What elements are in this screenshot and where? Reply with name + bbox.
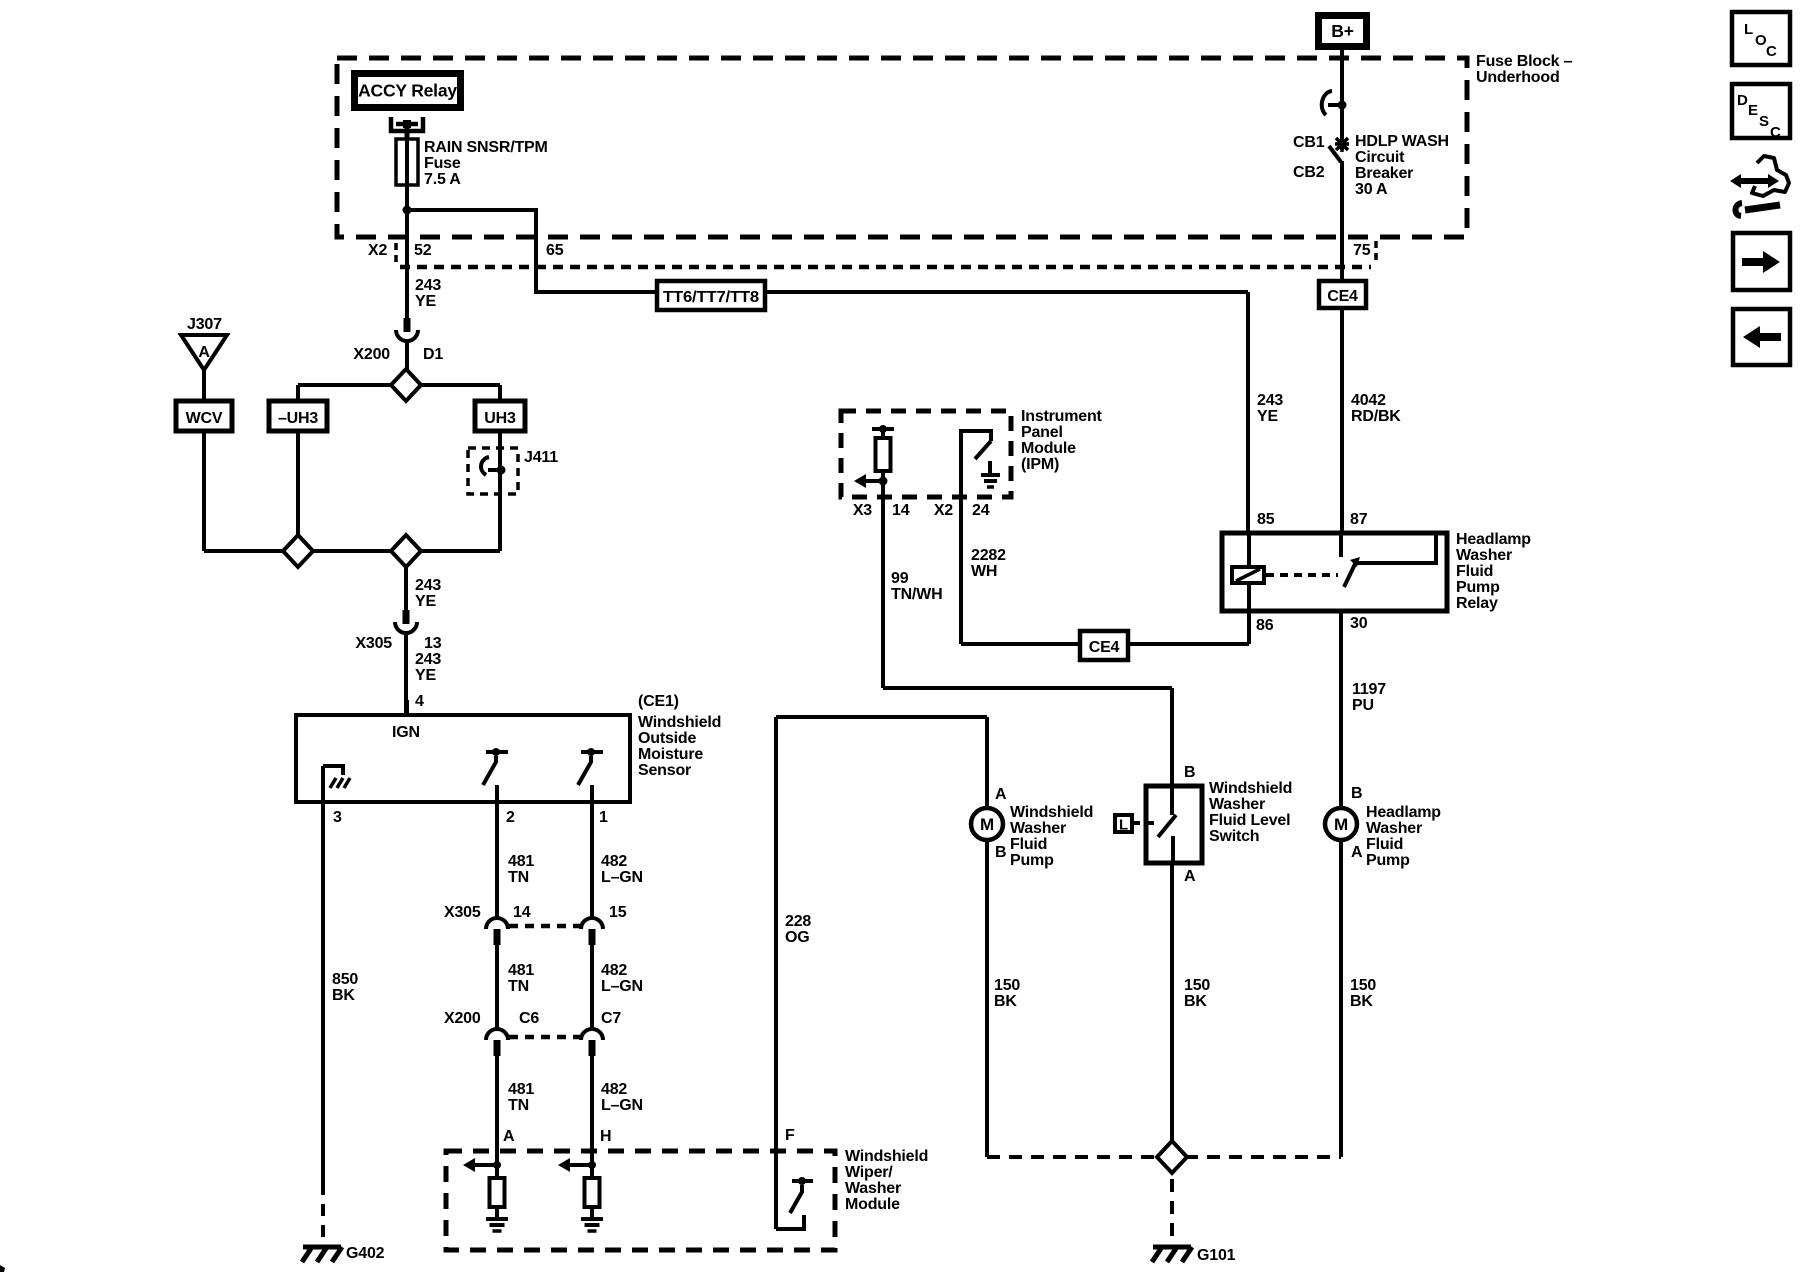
svg-text:OG: OG bbox=[785, 929, 810, 946]
svg-text:BK: BK bbox=[994, 993, 1017, 1010]
svg-text:–UH3: –UH3 bbox=[278, 410, 318, 427]
svg-text:850: 850 bbox=[332, 971, 358, 988]
svg-text:15: 15 bbox=[609, 904, 627, 921]
svg-text:4: 4 bbox=[415, 693, 424, 710]
svg-text:G402: G402 bbox=[346, 1245, 385, 1262]
svg-text:4042: 4042 bbox=[1351, 392, 1386, 409]
svg-text:TN/WH: TN/WH bbox=[891, 586, 942, 603]
svg-text:A: A bbox=[198, 344, 210, 361]
svg-text:1197: 1197 bbox=[1352, 681, 1386, 698]
svg-text:RD/BK: RD/BK bbox=[1351, 408, 1401, 425]
svg-text:2: 2 bbox=[506, 809, 515, 826]
svg-text:482: 482 bbox=[601, 962, 627, 979]
svg-text:C6: C6 bbox=[519, 1010, 539, 1027]
svg-text:Relay: Relay bbox=[1456, 595, 1498, 612]
svg-text:99: 99 bbox=[891, 570, 909, 587]
svg-text:Windshield: Windshield bbox=[638, 714, 721, 731]
svg-text:Fluid Level: Fluid Level bbox=[1209, 812, 1290, 829]
svg-text:RAIN SNSR/TPM: RAIN SNSR/TPM bbox=[424, 139, 548, 156]
svg-text:Sensor: Sensor bbox=[638, 762, 691, 779]
svg-text:Washer: Washer bbox=[1456, 547, 1512, 564]
svg-text:Washer: Washer bbox=[845, 1180, 901, 1197]
svg-text:Moisture: Moisture bbox=[638, 746, 703, 763]
svg-text:Headlamp: Headlamp bbox=[1366, 804, 1441, 821]
svg-text:J411: J411 bbox=[524, 449, 558, 466]
svg-text:YE: YE bbox=[415, 667, 436, 684]
svg-text:H: H bbox=[600, 1128, 611, 1145]
svg-text:BK: BK bbox=[1184, 993, 1207, 1010]
svg-text:X305: X305 bbox=[444, 904, 481, 921]
svg-text:TN: TN bbox=[508, 869, 529, 886]
svg-text:Washer: Washer bbox=[1209, 796, 1265, 813]
svg-text:C: C bbox=[1770, 124, 1781, 141]
svg-text:Module: Module bbox=[1021, 440, 1076, 457]
svg-text:Underhood: Underhood bbox=[1476, 69, 1560, 86]
svg-text:L–GN: L–GN bbox=[601, 869, 643, 886]
svg-text:30 A: 30 A bbox=[1355, 181, 1388, 198]
svg-text:Windshield: Windshield bbox=[1010, 804, 1093, 821]
svg-text:Windshield: Windshield bbox=[1209, 780, 1292, 797]
svg-text:D1: D1 bbox=[423, 346, 443, 363]
svg-text:HDLP WASH: HDLP WASH bbox=[1355, 133, 1449, 150]
svg-text:L: L bbox=[1119, 817, 1128, 834]
svg-text:Breaker: Breaker bbox=[1355, 165, 1413, 182]
svg-text:E: E bbox=[1748, 102, 1758, 119]
svg-text:L: L bbox=[1744, 21, 1753, 38]
svg-text:G101: G101 bbox=[1197, 1247, 1236, 1264]
svg-text:BK: BK bbox=[1350, 993, 1373, 1010]
svg-text:L–GN: L–GN bbox=[601, 1097, 643, 1114]
svg-text:150: 150 bbox=[994, 977, 1020, 994]
svg-text:BK: BK bbox=[332, 987, 355, 1004]
svg-text:TN: TN bbox=[508, 1097, 529, 1114]
svg-text:C7: C7 bbox=[601, 1010, 621, 1027]
svg-text:D: D bbox=[1737, 92, 1748, 109]
svg-text:Washer: Washer bbox=[1366, 820, 1422, 837]
svg-text:228: 228 bbox=[785, 913, 811, 930]
svg-text:X2: X2 bbox=[368, 242, 387, 259]
svg-text:X200: X200 bbox=[444, 1010, 481, 1027]
svg-text:13: 13 bbox=[424, 635, 442, 652]
svg-text:Washer: Washer bbox=[1010, 820, 1066, 837]
svg-text:ACCY Relay: ACCY Relay bbox=[358, 81, 457, 101]
svg-text:1: 1 bbox=[599, 809, 608, 826]
svg-text:A: A bbox=[503, 1128, 515, 1145]
svg-text:Fluid: Fluid bbox=[1010, 836, 1047, 853]
svg-text:C: C bbox=[1766, 43, 1777, 60]
svg-text:WH: WH bbox=[971, 563, 997, 580]
svg-text:7.5 A: 7.5 A bbox=[424, 171, 461, 188]
svg-text:CB2: CB2 bbox=[1293, 164, 1325, 181]
svg-text:(CE1): (CE1) bbox=[638, 693, 679, 710]
svg-text:YE: YE bbox=[415, 593, 436, 610]
svg-text:Pump: Pump bbox=[1010, 852, 1054, 869]
svg-text:87: 87 bbox=[1350, 511, 1368, 528]
svg-text:A: A bbox=[1351, 844, 1363, 861]
svg-text:F: F bbox=[785, 1127, 795, 1144]
svg-text:CB1: CB1 bbox=[1293, 134, 1325, 151]
svg-text:Panel: Panel bbox=[1021, 424, 1063, 441]
svg-text:X2: X2 bbox=[934, 502, 953, 519]
svg-text:30: 30 bbox=[1350, 615, 1368, 632]
svg-text:150: 150 bbox=[1350, 977, 1376, 994]
svg-text:52: 52 bbox=[414, 242, 432, 259]
svg-text:Pump: Pump bbox=[1456, 579, 1500, 596]
svg-text:481: 481 bbox=[508, 853, 534, 870]
svg-text:243: 243 bbox=[415, 651, 441, 668]
svg-text:65: 65 bbox=[546, 242, 564, 259]
svg-text:Wiper/: Wiper/ bbox=[845, 1164, 893, 1181]
svg-text:14: 14 bbox=[513, 904, 531, 921]
svg-text:Module: Module bbox=[845, 1196, 900, 1213]
svg-text:Fluid: Fluid bbox=[1456, 563, 1493, 580]
svg-text:TN: TN bbox=[508, 978, 529, 995]
svg-text:YE: YE bbox=[415, 293, 436, 310]
svg-text:482: 482 bbox=[601, 1081, 627, 1098]
svg-text:86: 86 bbox=[1256, 617, 1274, 634]
svg-text:2282: 2282 bbox=[971, 547, 1006, 564]
svg-text:L–GN: L–GN bbox=[601, 978, 643, 995]
svg-text:TT6/TT7/TT8: TT6/TT7/TT8 bbox=[663, 289, 759, 306]
svg-text:Circuit: Circuit bbox=[1355, 149, 1405, 166]
svg-text:B+: B+ bbox=[1331, 21, 1353, 41]
svg-text:UH3: UH3 bbox=[484, 410, 516, 427]
svg-text:Pump: Pump bbox=[1366, 852, 1410, 869]
svg-text:481: 481 bbox=[508, 962, 534, 979]
svg-text:B: B bbox=[995, 844, 1006, 861]
svg-text:B: B bbox=[1351, 785, 1362, 802]
svg-text:243: 243 bbox=[1257, 392, 1283, 409]
svg-text:A: A bbox=[995, 786, 1007, 803]
svg-text:IGN: IGN bbox=[392, 724, 420, 741]
svg-text:14: 14 bbox=[892, 502, 910, 519]
svg-text:B: B bbox=[1184, 764, 1195, 781]
svg-text:A: A bbox=[1184, 868, 1196, 885]
svg-text:YE: YE bbox=[1257, 408, 1278, 425]
svg-text:CE4: CE4 bbox=[1327, 288, 1358, 305]
svg-text:85: 85 bbox=[1257, 511, 1275, 528]
svg-text:3: 3 bbox=[333, 809, 342, 826]
svg-text:X3: X3 bbox=[853, 502, 872, 519]
svg-text:S: S bbox=[1759, 113, 1769, 130]
svg-text:75: 75 bbox=[1353, 242, 1371, 259]
svg-text:M: M bbox=[980, 815, 994, 834]
svg-text:(IPM): (IPM) bbox=[1021, 456, 1059, 473]
svg-text:24: 24 bbox=[972, 502, 990, 519]
svg-text:WCV: WCV bbox=[186, 410, 223, 427]
svg-text:482: 482 bbox=[601, 853, 627, 870]
svg-text:150: 150 bbox=[1184, 977, 1210, 994]
svg-text:CE4: CE4 bbox=[1089, 639, 1120, 656]
svg-text:Switch: Switch bbox=[1209, 828, 1259, 845]
svg-text:J307: J307 bbox=[187, 316, 222, 333]
svg-text:Headlamp: Headlamp bbox=[1456, 531, 1531, 548]
svg-text:243: 243 bbox=[415, 577, 441, 594]
svg-text:Fuse: Fuse bbox=[424, 155, 461, 172]
svg-text:Fuse Block –: Fuse Block – bbox=[1476, 53, 1573, 70]
svg-text:PU: PU bbox=[1352, 697, 1374, 714]
svg-text:Windshield: Windshield bbox=[845, 1148, 928, 1165]
svg-text:X305: X305 bbox=[355, 635, 392, 652]
svg-text:243: 243 bbox=[415, 277, 441, 294]
svg-text:Outside: Outside bbox=[638, 730, 696, 747]
svg-text:X200: X200 bbox=[353, 346, 390, 363]
svg-text:Instrument: Instrument bbox=[1021, 408, 1103, 425]
svg-text:Fluid: Fluid bbox=[1366, 836, 1403, 853]
svg-text:481: 481 bbox=[508, 1081, 534, 1098]
svg-text:M: M bbox=[1334, 815, 1348, 834]
